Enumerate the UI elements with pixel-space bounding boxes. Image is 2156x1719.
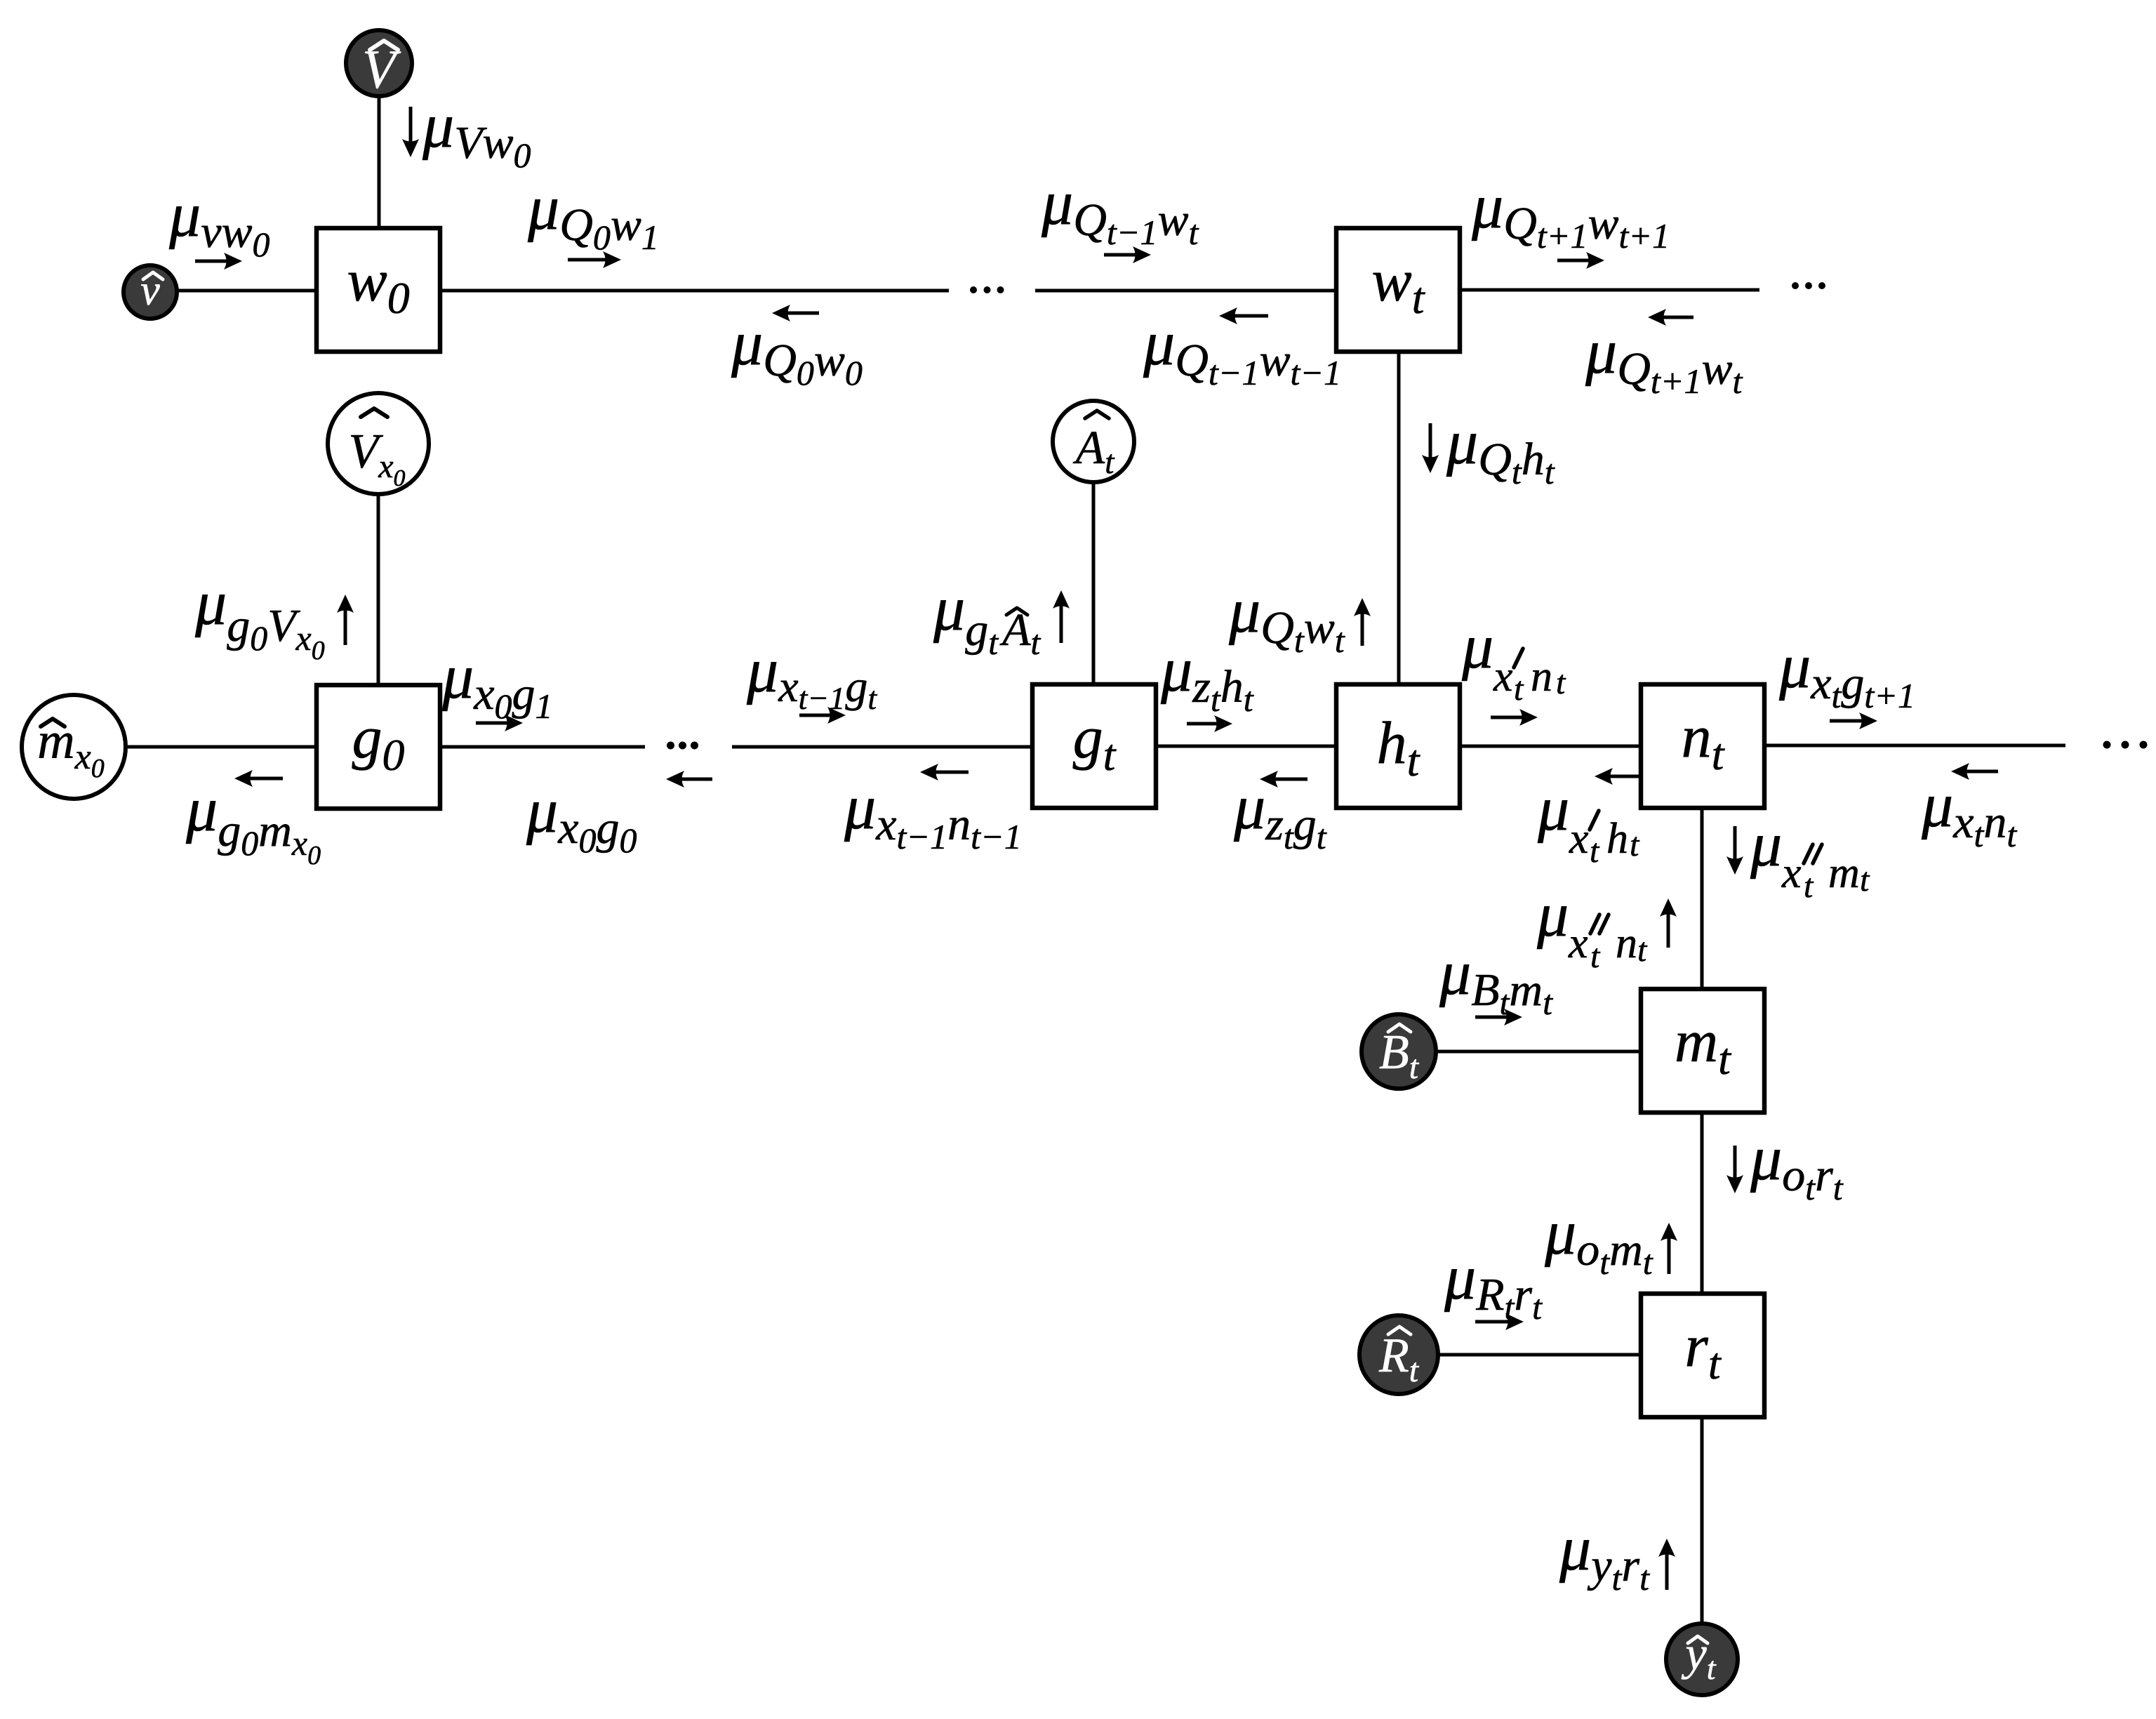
wire mx0 to g0	[126, 745, 317, 749]
message mu_g0mx0 (left)	[185, 770, 321, 870]
message mu_xt-1nt-1 (left)	[844, 764, 1022, 856]
message mu_xptht (left)	[1537, 768, 1646, 870]
message mu_vw0 (right)	[168, 180, 270, 270]
factor node mt	[1641, 989, 1764, 1113]
wire V-hat to w0	[378, 96, 381, 228]
message mu_xt-1gt (right)	[746, 636, 877, 724]
wire dots to gt	[732, 745, 1032, 749]
variable node Rt-hat (observed)	[1359, 1315, 1438, 1394]
message mu_x0g0 (left)	[526, 771, 712, 860]
message mu_Qtwt (up)	[1228, 576, 1371, 660]
variable node yt-hat (observed)	[1666, 1624, 1738, 1695]
wire Rt to rt	[1438, 1353, 1641, 1357]
message mu_Qt-1wt-1 (left)	[1143, 307, 1341, 392]
message mu_Btmt (right)	[1439, 938, 1553, 1026]
ellipsis row1 right	[1792, 282, 1825, 289]
message mu_otrt (down)	[1726, 1124, 1844, 1207]
wire wt to dots	[1460, 288, 1759, 292]
wire mt to rt	[1701, 1113, 1704, 1294]
message mu_Qt-1wt (right)	[1041, 168, 1199, 263]
message mu_xtnt (left)	[1921, 763, 2017, 854]
variable node v-hat (observed)	[124, 265, 177, 319]
message mu_Vw0 (down)	[402, 91, 531, 175]
wire rt to yt	[1701, 1417, 1704, 1624]
variable node At-hat	[1053, 401, 1134, 482]
message mu_xptnt (right)	[1461, 612, 1566, 726]
message mu_xpptmt (down)	[1726, 810, 1870, 905]
wire nt to dots	[1764, 744, 2065, 748]
wire Bt to mt	[1436, 1050, 1641, 1054]
wire v-hat to w0	[177, 289, 317, 293]
wire g0 to dots	[440, 745, 645, 749]
variable node mx0-hat	[22, 695, 126, 799]
message mu_xpptnt (up)	[1536, 880, 1677, 975]
variable node V-hat (observed)	[346, 30, 412, 100]
factor node g0	[317, 685, 440, 809]
message mu_ytrt (up)	[1559, 1514, 1675, 1598]
message mu_Qt+1wt+1 (right)	[1471, 172, 1670, 269]
wire nt to mt	[1701, 808, 1704, 989]
message mu_otmt (up)	[1544, 1198, 1677, 1282]
variable node Bt-hat (observed)	[1362, 1014, 1436, 1089]
factor node gt	[1032, 684, 1156, 808]
wire wt to ht	[1397, 352, 1401, 684]
message mu_Q0w0 (left)	[731, 305, 863, 392]
factor node w0	[317, 228, 440, 352]
message mu_Qt+1wt (left)	[1585, 309, 1743, 401]
variable node Vx0-hat	[328, 393, 429, 494]
wire w0 to dots	[440, 289, 949, 293]
message mu_ztgt (left)	[1233, 771, 1327, 856]
wire Vx0 to g0	[377, 494, 380, 685]
message mu_xtgt+1 (right)	[1778, 632, 1915, 729]
message mu_Qtht (down)	[1422, 408, 1555, 491]
ellipsis row2 left	[667, 742, 698, 750]
message mu_Q0w1 (right)	[527, 173, 659, 268]
wire At to gt	[1092, 482, 1096, 684]
factor node ht	[1336, 684, 1460, 808]
factor node nt	[1641, 684, 1764, 808]
wire gt to ht	[1156, 745, 1336, 748]
factor node wt	[1336, 228, 1460, 352]
wire ht to nt	[1460, 745, 1641, 748]
message mu_gtAt (up)	[933, 574, 1070, 662]
ellipsis row2 right	[2103, 741, 2148, 749]
message mu_ztht (right)	[1160, 635, 1254, 732]
ellipsis row1 left	[970, 286, 1004, 293]
message mu_g0Vx0 (up)	[194, 569, 354, 665]
message mu_x0g1 (right)	[441, 642, 552, 731]
message mu_Rtrt (right)	[1444, 1243, 1543, 1330]
wire dots to wt	[1035, 289, 1336, 293]
factor node rt	[1641, 1294, 1764, 1417]
